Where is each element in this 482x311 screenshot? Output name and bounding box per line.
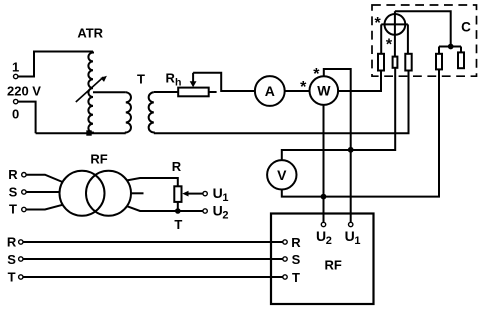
svg-text:A: A <box>265 83 275 99</box>
transformer T primary winding <box>126 92 131 133</box>
svg-text:V: V <box>277 167 287 183</box>
terminal block b1 <box>378 54 384 71</box>
autotransformer ATR winding <box>88 52 93 134</box>
terminal block b4 <box>436 54 442 70</box>
V bottom wire / line to C box terminal b4 <box>282 69 439 196</box>
svg-text:T: T <box>8 270 16 285</box>
svg-text:T: T <box>174 217 182 232</box>
transformer T secondary winding <box>149 92 154 133</box>
svg-text:U: U <box>345 228 355 244</box>
terminal S input <box>22 190 26 194</box>
V top wire / line to C box terminal b3 <box>282 68 395 160</box>
terminal S line left <box>19 257 23 261</box>
ATR variable arrow <box>76 77 104 102</box>
stub S output <box>131 192 144 194</box>
terminal R input <box>22 173 26 177</box>
svg-text:T: T <box>292 270 300 285</box>
divider resistor body <box>174 186 181 202</box>
terminal 0 <box>14 99 18 103</box>
ATR tap wire to T primary <box>93 91 126 93</box>
terminal T box <box>283 275 287 279</box>
svg-text:1: 1 <box>12 60 19 75</box>
svg-text:1: 1 <box>222 192 228 204</box>
junction dot divider/T <box>175 208 181 214</box>
terminal U2 box <box>321 222 325 226</box>
wire from terminal 1 to ATR top <box>18 52 93 77</box>
terminal block b3 <box>405 54 411 71</box>
svg-text:W: W <box>317 83 331 99</box>
U1 wiper arrow <box>187 193 203 195</box>
meter C dashed enclosure <box>372 5 477 76</box>
wire A to W <box>285 90 310 92</box>
svg-text:h: h <box>175 76 181 88</box>
terminal R box <box>283 240 287 244</box>
svg-text:ATR: ATR <box>77 26 103 41</box>
terminal U1 box <box>349 222 353 226</box>
terminal 1 <box>14 74 18 78</box>
svg-text:2: 2 <box>326 235 332 247</box>
terminal block b2 <box>393 57 398 68</box>
wire R input <box>26 175 62 182</box>
wiper wire to ammeter <box>193 73 255 91</box>
wire T line <box>23 276 283 278</box>
energy meter disc symbol <box>385 14 406 35</box>
ammeter A <box>255 76 285 106</box>
svg-text:*: * <box>386 37 393 54</box>
svg-text:U: U <box>316 228 326 244</box>
svg-text:R: R <box>8 167 18 182</box>
svg-text:R: R <box>166 70 176 85</box>
ATR bottom rail <box>36 132 126 134</box>
wire S input <box>26 191 60 193</box>
phase shifter right circle <box>86 171 131 216</box>
svg-text:1: 1 <box>354 235 360 247</box>
svg-text:S: S <box>292 252 301 267</box>
junction dot U1/line2 <box>348 147 354 153</box>
bridge over right terminal pair <box>439 47 461 54</box>
wattmeter W <box>310 76 339 105</box>
rheostat wiper arrow <box>192 73 194 82</box>
wire from terminal 0 to bottom rail <box>18 102 36 134</box>
meter top wire to right pair <box>395 11 451 46</box>
wire T output to U2 <box>127 206 203 211</box>
wire S line <box>23 258 283 260</box>
svg-text:U: U <box>213 202 223 218</box>
terminal S box <box>283 257 287 261</box>
phase regulator RF box <box>271 214 374 305</box>
junction dot ATR bottom <box>86 130 91 135</box>
terminal block b5 <box>458 52 464 68</box>
T secondary bottom rail to C box terminal b2 <box>154 71 409 134</box>
divider bottom wire <box>177 202 179 211</box>
meter cross horizontal <box>381 23 408 25</box>
terminal R line left <box>19 240 23 244</box>
svg-text:S: S <box>7 252 16 267</box>
svg-text:2: 2 <box>222 209 228 221</box>
meter left arm down to terminal b1 <box>380 24 382 53</box>
terminal U1 out <box>203 191 207 195</box>
terminal T line left <box>19 275 23 279</box>
W current out wire to C box terminal b1 <box>338 71 381 92</box>
W bottom wire down to U2 <box>323 105 325 222</box>
svg-text:R: R <box>291 235 301 250</box>
wire R line <box>23 241 283 243</box>
svg-text:*: * <box>300 79 307 96</box>
svg-text:R: R <box>172 159 182 174</box>
svg-text:220 V: 220 V <box>7 84 41 99</box>
wire T input <box>26 205 62 210</box>
wire R output to divider <box>127 178 178 186</box>
rheostat Rh body <box>178 88 209 97</box>
terminal T input <box>22 207 26 211</box>
meter cross vertical <box>394 11 396 56</box>
voltmeter V <box>267 160 296 189</box>
terminal U2 out <box>203 209 207 213</box>
T secondary top wire to rheostat <box>154 91 178 93</box>
svg-text:RF: RF <box>325 257 342 272</box>
junction dot U2/line3 <box>321 194 327 200</box>
rheostat right stub <box>209 91 217 93</box>
svg-text:U: U <box>213 185 223 201</box>
W voltage wire up and down to U1 <box>324 69 351 222</box>
svg-text:S: S <box>9 184 18 199</box>
junction dot bridge <box>448 44 454 50</box>
phase shifter left circle <box>60 171 105 216</box>
svg-text:C: C <box>461 20 471 35</box>
svg-text:0: 0 <box>12 107 19 122</box>
meter right arm down to terminal b3 <box>407 24 409 53</box>
svg-text:R: R <box>7 235 17 250</box>
svg-text:RF: RF <box>90 152 107 167</box>
svg-text:T: T <box>137 71 145 86</box>
svg-text:T: T <box>9 201 17 216</box>
